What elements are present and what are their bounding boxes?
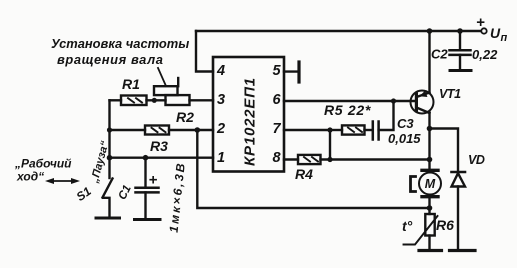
switch S1 blade	[103, 179, 113, 198]
transistor VT1 emitter lead	[428, 31, 430, 93]
svg-text:М: М	[425, 177, 436, 191]
wire motor to R6	[428, 197, 430, 214]
pointer line from title to trimmer	[158, 68, 166, 86]
junction dot C3 to base wire	[391, 98, 396, 103]
svg-text:2: 2	[216, 121, 225, 137]
svg-text:вращения вала: вращения вала	[57, 52, 164, 67]
long vertical wire to bottom	[197, 130, 429, 208]
capacitor C3 plates	[373, 122, 379, 140]
svg-text:7: 7	[273, 121, 282, 137]
thermistor R6 body	[425, 214, 434, 236]
IC pin5 stub wire	[284, 70, 298, 72]
svg-text:R1: R1	[122, 76, 140, 92]
svg-text:+: +	[149, 172, 158, 189]
svg-text:t°: t°	[402, 218, 413, 234]
svg-text:VD: VD	[468, 153, 485, 167]
junction dot left rail pin1 row	[107, 155, 113, 161]
resistor R4 body	[298, 155, 321, 164]
top rail wire	[196, 30, 482, 32]
resistor R1 body	[121, 96, 147, 106]
junction dot motor bottom	[427, 205, 433, 211]
svg-text:R2: R2	[176, 109, 194, 125]
svg-text:R4: R4	[295, 166, 313, 182]
IC pin8 stub wire	[284, 158, 298, 160]
wire pin3 row	[110, 99, 122, 101]
capacitor C1 upper lead	[144, 158, 146, 188]
transistor VT1 collector lead	[428, 113, 430, 129]
motor M1 stator bracket	[411, 177, 416, 192]
wire pin1 row	[110, 156, 214, 158]
wire C3 to pin6 net	[379, 101, 394, 130]
svg-text:5: 5	[273, 63, 282, 79]
left rail wire	[108, 100, 110, 157]
svg-text:R5 22*: R5 22*	[324, 102, 371, 118]
wire pin2 row right	[169, 129, 213, 131]
wire R5 to C3	[365, 129, 373, 131]
svg-text:4: 4	[216, 63, 225, 79]
wire trimmer to pin3	[190, 99, 214, 101]
resistor R3 power slashes	[152, 128, 166, 132]
junction dot VT1 collector node	[427, 126, 433, 132]
capacitor C2 lower lead	[459, 55, 461, 71]
transistor VT1 collector inner segment	[416, 108, 429, 114]
wire pin7 row	[284, 129, 330, 131]
trimmer lower element	[166, 95, 190, 105]
capacitor C1 ground bar	[135, 218, 161, 221]
junction dot motor top pin8	[427, 157, 433, 163]
thermistor R6 ground bar	[419, 249, 442, 252]
svg-text:3: 3	[217, 92, 225, 108]
wire R5 left lead	[330, 129, 342, 131]
svg-text:ход“: ход“	[16, 170, 44, 184]
svg-text:8: 8	[273, 150, 282, 166]
thermistor R6 lower lead	[428, 236, 430, 251]
switch S1 lower lead	[103, 198, 110, 218]
motor M1 upper brush bar	[422, 169, 438, 172]
junction dot C1 top	[143, 155, 149, 161]
capacitor C1 plates	[136, 188, 159, 193]
svg-text:R3: R3	[150, 138, 168, 154]
svg-text:КР1022ЕП1: КР1022ЕП1	[242, 77, 259, 166]
svg-text:Установка частоты: Установка частоты	[51, 36, 189, 51]
svg-text:„Рабочий: „Рабочий	[14, 157, 72, 171]
motor M1 body circle	[419, 173, 441, 195]
transistor VT1 base bar	[415, 94, 418, 111]
wire pin6 row to VT1 base	[284, 100, 415, 102]
wire motor column upper	[428, 129, 430, 170]
junction dot R1/trimmer node	[152, 98, 157, 103]
transistor VT1 emitter arrowhead	[420, 91, 428, 98]
transistor VT1 body circle	[411, 91, 434, 114]
thermistor R6 diagonal	[404, 216, 438, 245]
svg-text:+: +	[476, 14, 485, 31]
junction dot top rail VT1	[427, 28, 433, 34]
svg-text:0,015: 0,015	[388, 131, 421, 146]
svg-text:C2: C2	[431, 47, 448, 62]
resistor R5 body	[342, 125, 365, 134]
svg-text:R6: R6	[436, 217, 454, 233]
motor M1 lower brush bar	[422, 195, 438, 198]
pin5 terminator bar	[297, 62, 300, 82]
junction dot left rail pin2 row	[107, 127, 112, 132]
junction dot link pin8 row	[327, 157, 332, 162]
diode VD ground bar	[450, 249, 476, 252]
resistor R5 power slashes	[348, 128, 362, 132]
junction dot R5 left	[327, 127, 332, 132]
svg-text:0,22: 0,22	[472, 47, 498, 62]
mode double arrow	[45, 178, 80, 184]
junction dot top rail C2	[457, 28, 463, 34]
IC DA1 body КР1022ЕП1	[213, 57, 284, 172]
resistor R4 power slashes	[304, 157, 318, 161]
supply terminal circle +Un	[481, 28, 486, 33]
svg-text:1: 1	[217, 150, 225, 166]
capacitor C2 upper lead	[459, 31, 461, 50]
svg-text:U: U	[490, 25, 501, 41]
wire link pin7 to pin8 row	[329, 130, 331, 160]
trimmer upper element	[154, 86, 178, 95]
diode VD cathode bar	[452, 171, 466, 174]
capacitor C1 lower lead	[144, 192, 146, 219]
diode VD lower lead	[457, 187, 459, 251]
transistor VT1 emitter inner segment	[418, 93, 430, 97]
resistor R3 body	[145, 126, 169, 135]
svg-text:п: п	[501, 32, 508, 44]
svg-text:C3: C3	[397, 116, 414, 131]
diode VD triangle	[452, 173, 466, 186]
switch S1 upper lead	[108, 158, 110, 178]
wire pin8 row to motor column	[321, 158, 430, 160]
switch S1 ground bar	[96, 217, 120, 220]
svg-text:6: 6	[273, 92, 282, 108]
wire pin4 to top rail	[196, 31, 213, 72]
svg-text:VT1: VT1	[439, 87, 461, 101]
wire pin2 row left	[110, 129, 146, 131]
resistor R1 power slashes	[128, 98, 142, 102]
junction dot long vertical pin2 row	[195, 127, 201, 133]
wire collector node to VD	[430, 129, 459, 173]
capacitor C2 plates	[450, 50, 471, 55]
wire R1 to trimmer node	[147, 99, 166, 101]
trimmer wiper tick	[177, 78, 179, 86]
capacitor C2 ground bar	[450, 69, 471, 72]
